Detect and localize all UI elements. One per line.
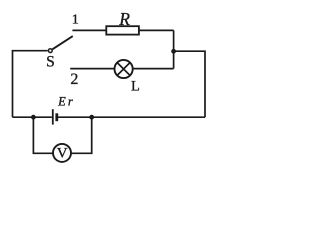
svg-text:S: S: [46, 54, 55, 71]
svg-text:1: 1: [72, 13, 79, 28]
svg-text:2: 2: [70, 71, 78, 88]
svg-text:R: R: [118, 9, 130, 29]
svg-text:L: L: [131, 79, 140, 95]
svg-text:r: r: [68, 94, 73, 108]
svg-text:E: E: [57, 94, 66, 108]
svg-text:V: V: [57, 146, 68, 162]
